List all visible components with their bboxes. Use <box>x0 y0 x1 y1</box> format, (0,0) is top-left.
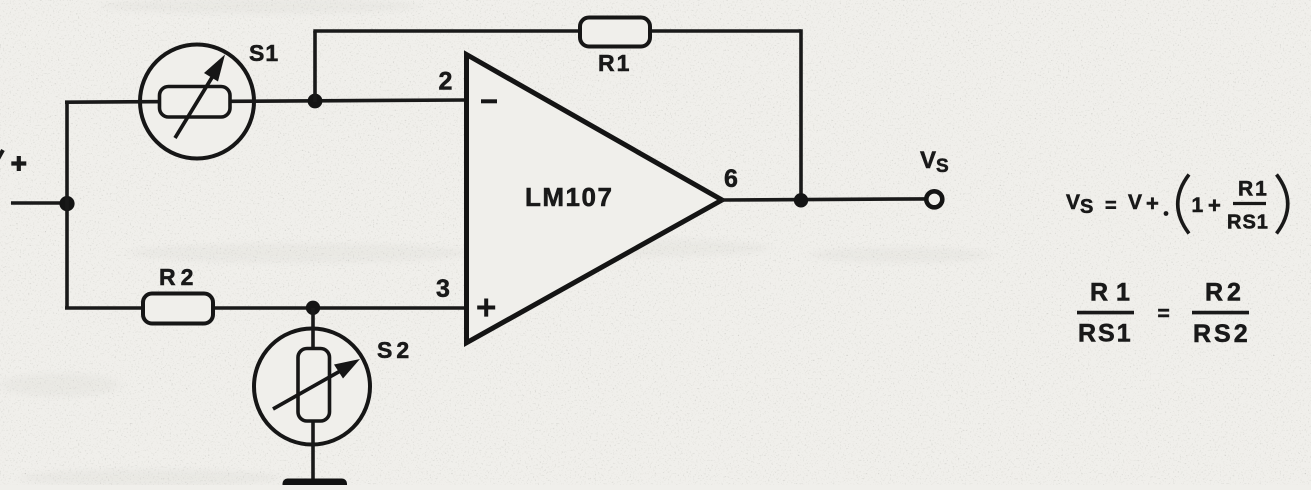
node pin3 junction <box>306 301 320 315</box>
svg-text:=: = <box>1105 195 1117 217</box>
svg-text:S2: S2 <box>377 337 413 363</box>
terminal VS <box>926 191 942 207</box>
minus sign inverting input <box>481 99 497 103</box>
formula 2 : R1/RS1 = R2/RS2 <box>1077 279 1251 349</box>
svg-text:2: 2 <box>439 68 453 96</box>
svg-text:R2: R2 <box>1205 279 1245 307</box>
svg-text:S1: S1 <box>249 40 279 66</box>
svg-text:V: V <box>1128 191 1142 214</box>
wire feedback riser <box>313 31 317 102</box>
formula 1 : VS = V+.(1+R1/RS1) <box>1066 175 1288 234</box>
node output junction <box>794 193 808 207</box>
arrow of S2 <box>273 359 360 409</box>
svg-text:+: + <box>1146 191 1159 216</box>
svg-text:+: + <box>1208 193 1221 218</box>
ground <box>283 479 348 490</box>
op-amp U1 LM107 <box>467 55 723 343</box>
resistor body of S2 <box>298 349 330 422</box>
svg-text:=: = <box>1158 303 1170 326</box>
svg-text:R1: R1 <box>1090 279 1138 307</box>
svg-text:6: 6 <box>724 165 738 193</box>
resistor R1 <box>580 18 650 47</box>
wire output <box>722 199 927 200</box>
wire feedback drop <box>799 29 803 200</box>
svg-text:R1: R1 <box>1238 178 1269 201</box>
svg-text:3: 3 <box>436 275 450 303</box>
wire top feedback rail <box>313 29 801 33</box>
svg-text:1: 1 <box>1192 194 1204 217</box>
arrow of S1 <box>175 55 225 139</box>
svg-text:R2: R2 <box>159 264 198 290</box>
wire top rail pin2 <box>65 100 467 102</box>
svg-text:LM107: LM107 <box>525 182 613 212</box>
wire input lead <box>11 201 67 205</box>
svg-text:VS: VS <box>1066 191 1093 218</box>
wire lower rail pin3 <box>65 306 467 310</box>
svg-text:RS1: RS1 <box>1227 212 1269 234</box>
resistor body of S1 <box>160 87 231 118</box>
resistor R2 <box>143 294 213 324</box>
node input junction <box>59 196 74 211</box>
sensor S2 circle <box>254 329 370 445</box>
svg-text:RS2: RS2 <box>1193 320 1251 348</box>
wire S2 riser and ground lead <box>311 308 315 480</box>
svg-text:R1: R1 <box>598 50 631 76</box>
plus sign non-inverting input <box>477 299 495 317</box>
node pin2 junction <box>308 94 323 109</box>
svg-text:RS1: RS1 <box>1078 320 1133 348</box>
sensor S1 circle <box>140 45 254 159</box>
wire left vertical bus <box>65 102 69 308</box>
label V+ input <box>0 150 26 171</box>
